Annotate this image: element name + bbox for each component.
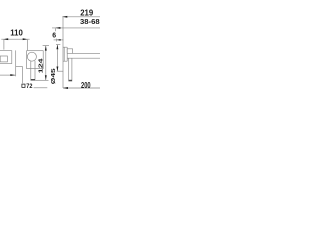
dim sq72 line [34,87,48,89]
plate slab side top [63,46,67,48]
svg-text:110: 110 [10,29,23,38]
dim 6 line [54,39,64,41]
dim 124 tick top [43,45,49,47]
dim 110 ext left [3,40,5,50]
svg-text:Ø45: Ø45 [50,68,56,84]
body box side [67,49,72,54]
spout top line [67,52,100,54]
dim 6 ext tick [55,39,57,42]
svg-text:38-68: 38-68 [80,17,100,26]
lever side [69,58,72,81]
sq72 square symbol [22,84,25,87]
dim 124 tick bottom [35,79,48,81]
plate slab side [63,47,67,61]
arrow 200 left [63,87,68,89]
dim 38-68 ext tick [54,28,56,31]
arrow 38-68 left [55,27,60,29]
wall line [62,17,64,88]
right plate outline [27,51,44,69]
cut dim ext [15,50,17,76]
spout bottom line [67,57,100,59]
svg-text:200: 200 [81,80,91,90]
dim dia45 tick top [56,44,60,46]
arrow 110 left [3,38,8,40]
dim 219 line [62,16,100,18]
spout outlet rect [0,56,7,62]
dim 110 line [1,38,29,40]
dim 200 line [63,87,100,89]
cut dim line left [0,74,15,76]
dim dia45 tick bottom [57,70,63,72]
svg-text:6: 6 [52,33,56,40]
arrow 6 [57,39,61,41]
sq72 leader vertical [21,66,23,83]
sq72 leader horizontal [16,65,23,67]
arrow 110 right [23,38,28,40]
dim dia45 line [56,45,58,72]
lever front bottom cap [31,79,35,80]
arrow cut dim right [10,74,15,76]
left plate outline [0,51,12,64]
arrow dia45 bottom [56,67,58,72]
arrow 124 top [45,46,47,51]
svg-text:124: 124 [37,59,44,74]
svg-text:72: 72 [26,83,32,90]
dim 110 ext right [27,40,29,50]
arrow dia45 top [56,45,58,50]
arrow 124 bottom [45,75,47,80]
dim 38-68 line [52,27,100,29]
lever side bottom cap [69,80,72,81]
arrow 219 left [62,16,67,18]
dim 124 line [45,46,47,81]
handle lever front [31,61,35,80]
handle circle [27,52,36,61]
